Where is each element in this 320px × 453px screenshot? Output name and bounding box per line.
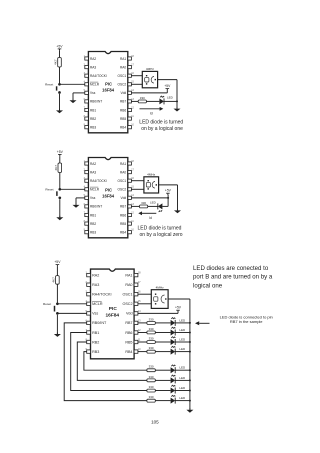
wire resistor to LED (RB3) (155, 369, 170, 371)
LED D6 on RB4 (171, 346, 176, 355)
svg-text:OSC1: OSC1 (118, 179, 127, 183)
svg-text:12: 12 (131, 106, 134, 109)
wire node to MCLR pin (figure 3) (57, 303, 86, 305)
wire LED cathode to rail (RB0) (175, 400, 190, 402)
wire resistor to LED (RB2) (155, 379, 170, 381)
ground at Vss (figure 2) (73, 203, 80, 207)
svg-text:RA2: RA2 (90, 57, 96, 61)
wire button to ground (figure 3) (56, 315, 58, 334)
svg-text:+5V: +5V (56, 44, 63, 48)
svg-text:17: 17 (131, 64, 134, 67)
svg-text:4K7: 4K7 (54, 165, 58, 171)
LED D2 (on = logic zero) (158, 203, 163, 212)
svg-text:RB2: RB2 (90, 222, 96, 226)
node rail junction (RB0) (189, 400, 191, 402)
U2 pin 6 RB0/INT (84, 203, 103, 209)
svg-text:17: 17 (138, 280, 141, 284)
node MCLR junction (59, 83, 61, 85)
svg-text:LED: LED (179, 376, 186, 380)
svg-text:15: 15 (131, 186, 134, 189)
U1 pin 3 RA4/TOCKI (84, 72, 107, 78)
U1 pin 16 OSC1 (118, 72, 135, 78)
svg-text:RB3: RB3 (92, 350, 99, 354)
U2 pin 12 RB6 (120, 211, 135, 217)
U1 pin 5 Vss (84, 89, 96, 95)
svg-text:Vdd: Vdd (126, 312, 133, 316)
svg-text:LED diode is turned: LED diode is turned (139, 119, 183, 125)
resistor R10 330 (RB3) (147, 365, 155, 372)
svg-text:LED: LED (179, 318, 186, 322)
LED D8 on RB2 (171, 375, 176, 384)
U1 pin 4 MCLR (84, 81, 100, 87)
svg-text:4MHz: 4MHz (146, 67, 155, 71)
U3 pin 15 OSC2 (122, 299, 141, 306)
svg-text:4K7: 4K7 (52, 277, 56, 283)
svg-text:+5V: +5V (57, 150, 64, 154)
wire OSC1 to oscillator (figure 3) (138, 293, 151, 295)
ground at cathode rail (figure 3) (186, 408, 193, 412)
resistor R7 330 (RB6) (147, 327, 155, 334)
U1 pin 12 RB6 (120, 106, 135, 112)
wire R2 to LED (146, 100, 159, 102)
svg-text:RB1: RB1 (90, 213, 96, 217)
resistor R13 330 (RB0) (147, 395, 155, 402)
svg-text:13: 13 (138, 318, 141, 322)
IC U2 PIC16F84 body (88, 158, 127, 238)
pushbutton Reset (figure 2) (45, 188, 61, 200)
svg-text:Id: Id (150, 111, 153, 115)
svg-text:Reset: Reset (45, 188, 53, 192)
wire R1 to MCLR node (59, 67, 61, 84)
svg-text:PIC: PIC (109, 306, 118, 312)
annotation arrow to RB7 LED (195, 321, 210, 325)
svg-text:14: 14 (131, 194, 134, 197)
IC U1 label PIC 16F84 (102, 81, 115, 92)
U1 pin 15 OSC2 (118, 81, 135, 87)
wire LED cathode to rail (RB2) (175, 379, 190, 381)
wire LED cathode to rail (RB7) (175, 322, 190, 324)
svg-text:RB6: RB6 (120, 213, 126, 217)
svg-text:RA4/TOCKI: RA4/TOCKI (92, 293, 111, 297)
wire +5V tick (177, 312, 179, 313)
svg-text:RB4: RB4 (120, 231, 126, 235)
U2 pin 15 OSC2 (118, 186, 135, 192)
U1 pin 17 RA0 (120, 64, 135, 70)
svg-text:330: 330 (149, 336, 154, 340)
IC U2 label PIC 16F84 (102, 187, 115, 198)
svg-text:330: 330 (149, 365, 154, 369)
wire RB7 to resistor (138, 322, 147, 324)
wire R5 to MCLR node (56, 284, 58, 304)
svg-text:LED: LED (179, 347, 186, 351)
svg-text:Vdd: Vdd (121, 91, 127, 95)
wire RB5 to resistor (138, 341, 147, 343)
wire Vss down (72, 93, 74, 100)
svg-text:RA4/TOCKI: RA4/TOCKI (90, 74, 107, 78)
svg-text:LED: LED (179, 386, 186, 390)
svg-text:RB2: RB2 (90, 117, 96, 121)
svg-text:330: 330 (149, 385, 154, 389)
svg-text:Vdd: Vdd (121, 196, 127, 200)
ground at LED cathode (174, 107, 181, 111)
U2 pin 18 RA1 (120, 160, 135, 166)
wire resistor to LED (RB0) (155, 400, 170, 402)
caption figure 2 (138, 225, 183, 238)
wire OSC2 to oscillator (131, 83, 142, 85)
wire Vdd pin to +5V (138, 312, 178, 314)
wire Vss pin left (figure 2) (76, 197, 85, 199)
svg-text:logical one: logical one (193, 282, 223, 289)
ground below Reset button (figure 2) (56, 216, 63, 220)
svg-text:RA1: RA1 (120, 57, 126, 61)
wire node to MCLR pin (60, 83, 85, 85)
wire +5V to R1 (59, 51, 61, 58)
svg-text:OSC1: OSC1 (118, 74, 127, 78)
U1 pin 7 RB1 (84, 106, 97, 112)
resistor R12 330 (RB1) (147, 385, 155, 392)
wire rail down (figure 2) (177, 185, 179, 211)
svg-text:4MHz: 4MHz (156, 286, 165, 290)
wire RB0 routed below IC (64, 323, 147, 401)
svg-text:4K7: 4K7 (54, 59, 58, 65)
wire oscillator to cathode rail (168, 298, 190, 300)
LED D1 (on = logic one) (159, 96, 164, 105)
resistor R6 330 (RB7) (147, 317, 155, 324)
svg-text:17: 17 (131, 169, 134, 172)
oscillator X2 4MHz (144, 173, 159, 193)
node rail junction (RB4) (189, 351, 191, 353)
pushbutton Reset (45, 83, 61, 94)
wire RB2 routed below IC (77, 342, 147, 380)
svg-text:105: 105 (151, 420, 159, 425)
wire LED cathode to rail (RB6) (175, 332, 190, 334)
svg-text:16F84: 16F84 (102, 194, 115, 199)
svg-text:RB5: RB5 (125, 340, 132, 344)
U3 pin 13 RB7 (125, 318, 141, 325)
resistor R8 330 (RB5) (147, 336, 155, 343)
wire Vss down (75, 198, 77, 205)
wire button to ground (59, 94, 61, 111)
U2 pin 10 RB4 (120, 229, 135, 235)
svg-text:RB0/INT: RB0/INT (90, 100, 102, 104)
LED D3 on RB7 (171, 317, 176, 326)
wire OSC2 to oscillator (figure 2) (131, 188, 144, 190)
U2 pin 14 Vdd (121, 194, 135, 200)
U1 pin 9 RB3 (84, 124, 97, 130)
current direction arrow Id (140, 107, 164, 115)
svg-text:OSC1: OSC1 (122, 293, 132, 297)
LED D7 on RB3 (171, 365, 176, 374)
wire LED cathode to rail (RB5) (175, 341, 190, 343)
wire R4 to LED cathode (148, 205, 158, 207)
ground at Vss (70, 99, 77, 103)
node Vdd/+5V junction (167, 197, 169, 199)
U3 pin 16 OSC1 (122, 290, 141, 297)
wire RB4 to resistor (138, 351, 147, 353)
U2 pin 16 OSC1 (118, 177, 135, 183)
U1 pin 11 RB5 (120, 115, 134, 121)
resistor R11 330 (RB2) (147, 375, 155, 382)
svg-text:+5V: +5V (175, 306, 182, 310)
wire node to MCLR pin (60, 188, 85, 190)
U3 pin 1 RA2 (85, 271, 99, 278)
wire resistor to LED (RB6) (155, 332, 170, 334)
U3 pin 4 MCLR (85, 299, 102, 306)
U2 pin 13 RB7 (120, 203, 135, 209)
svg-text:RB5: RB5 (120, 117, 126, 121)
node MCLR junction (figure 3) (56, 303, 58, 305)
svg-text:RA4/TOCKI: RA4/TOCKI (90, 179, 107, 183)
svg-text:RB5: RB5 (120, 222, 126, 226)
node rail junction (RB3) (189, 369, 191, 371)
U2 pin 3 RA4/TOCKI (84, 177, 107, 183)
svg-text:13: 13 (131, 98, 134, 101)
svg-text:LED: LED (179, 396, 186, 400)
svg-text:330: 330 (149, 375, 154, 379)
wire RB1 routed below IC (71, 333, 147, 391)
svg-text:RA1: RA1 (120, 162, 126, 166)
svg-text:LED diodes are conected to: LED diodes are conected to (193, 265, 269, 272)
svg-text:11: 11 (131, 220, 134, 223)
resistor R3 4K7 pull-up (54, 163, 62, 173)
svg-text:on by a logical zero: on by a logical zero (140, 232, 183, 238)
svg-text:RA1: RA1 (125, 273, 132, 277)
U2 pin 5 Vss (84, 194, 96, 200)
U3 pin 8 RB2 (85, 337, 99, 344)
svg-text:18: 18 (131, 160, 134, 163)
oscillator X1 4MHz (142, 67, 157, 88)
svg-text:+5V: +5V (164, 84, 171, 88)
svg-text:RB2: RB2 (92, 340, 99, 344)
IC U3 PIC16F84 body (91, 269, 135, 359)
node LED/rail junction (176, 100, 178, 102)
U3 pin 18 RA1 (125, 271, 141, 278)
U2 pin 17 RA0 (120, 169, 135, 175)
+5V supply at Vdd (figure 1) (164, 84, 171, 90)
svg-text:Reset: Reset (43, 302, 51, 306)
resistor R9 330 (RB4) (147, 346, 155, 353)
resistor R1 4K7 pull-up (54, 58, 62, 68)
wire LED cathode to rail (RB1) (175, 390, 190, 392)
U3 pin 9 RB3 (85, 347, 99, 354)
svg-text:18: 18 (138, 271, 141, 275)
U3 pin 6 RB0/INT (85, 318, 107, 325)
svg-text:+5V: +5V (165, 189, 172, 193)
svg-text:LED: LED (179, 337, 186, 341)
svg-text:330: 330 (149, 346, 154, 350)
caption figure 3 (193, 265, 273, 290)
svg-text:LED: LED (179, 366, 186, 370)
U2 pin 2 RA3 (84, 169, 97, 175)
wire oscillator to ground rail (158, 79, 177, 81)
wire RB7 to R2 (131, 100, 138, 102)
U1 pin 13 RB7 (120, 98, 135, 104)
wire LED cathode to rail (164, 100, 177, 102)
U1 pin 6 RB0/INT (84, 98, 103, 104)
wire rail to ground (176, 101, 178, 108)
current direction arrow Id (figure 2) (138, 211, 156, 219)
U3 pin 17 RA0 (125, 280, 141, 287)
IC U3 label PIC 16F84 (105, 306, 119, 318)
svg-text:12: 12 (138, 328, 141, 332)
node rail junction (RB6) (189, 332, 191, 334)
U1 pin 14 Vdd (121, 89, 135, 95)
wire rail down to LED node (176, 80, 178, 102)
svg-text:15: 15 (131, 81, 134, 84)
wire OSC1 to oscillator (figure 2) (131, 180, 144, 182)
node rail junction (RB5) (189, 341, 191, 343)
U1 pin 8 RB2 (84, 115, 97, 121)
wire RB6 to resistor (138, 332, 147, 334)
U2 pin 11 RB5 (120, 220, 134, 226)
svg-text:RA0: RA0 (120, 170, 126, 174)
svg-text:11: 11 (138, 337, 141, 341)
annotation text: LED diode connected to pin RB7 (220, 315, 273, 325)
+5V supply rail (figure 1) (56, 44, 63, 50)
svg-text:18: 18 (131, 55, 134, 58)
svg-text:15: 15 (138, 299, 141, 303)
U3 pin 5 Vss (85, 309, 98, 316)
svg-text:Vss: Vss (92, 312, 98, 316)
svg-text:RB7 in the sample: RB7 in the sample (230, 319, 263, 324)
wire RB7 to R4 (131, 205, 139, 207)
svg-text:RB3: RB3 (90, 126, 96, 130)
svg-text:OSC2: OSC2 (118, 188, 127, 192)
svg-text:PIC: PIC (105, 187, 112, 192)
+5V supply at Vdd (figure 2) (165, 189, 172, 195)
svg-text:16: 16 (131, 72, 134, 75)
svg-text:RA3: RA3 (90, 65, 96, 69)
svg-text:13: 13 (131, 203, 134, 206)
svg-text:10: 10 (131, 229, 134, 232)
svg-text:330: 330 (149, 317, 154, 321)
svg-text:RB6: RB6 (120, 108, 126, 112)
svg-text:OSC2: OSC2 (122, 302, 132, 306)
svg-text:330: 330 (140, 96, 145, 100)
svg-text:10: 10 (131, 124, 134, 127)
wire resistor to LED (RB7) (155, 322, 170, 324)
wire +5V to R3 (59, 156, 61, 163)
svg-text:MCLR: MCLR (90, 83, 100, 87)
LED D10 on RB0 (171, 395, 176, 404)
svg-text:330: 330 (141, 201, 146, 205)
LED D5 on RB5 (171, 336, 176, 345)
U3 pin 10 RB4 (125, 347, 141, 354)
svg-text:RB3: RB3 (90, 231, 96, 235)
LED D9 on RB1 (171, 385, 176, 394)
wire LED cathode to rail (RB4) (175, 351, 190, 353)
wire resistor to LED (RB1) (155, 390, 170, 392)
ground below Reset button (figure 3) (54, 333, 61, 337)
wire LED cathode to rail (RB3) (175, 369, 190, 371)
svg-text:MCLR: MCLR (90, 188, 100, 192)
wire +5V down (166, 90, 168, 93)
U1 pin 10 RB4 (120, 124, 135, 130)
wire OSC2 to oscillator (figure 3) (138, 303, 151, 305)
wire +5V down to Vdd node (167, 195, 169, 198)
+5V supply at Vdd (figure 3) (175, 306, 182, 312)
wire OSC1 to oscillator (131, 75, 142, 77)
svg-text:Id: Id (149, 216, 152, 220)
resistor R2 330 (138, 96, 146, 103)
svg-text:RB1: RB1 (90, 108, 96, 112)
svg-text:16: 16 (131, 177, 134, 180)
svg-text:RA2: RA2 (92, 273, 99, 277)
wire RB3 routed below IC (84, 352, 147, 371)
IC U1 PIC16F84 body (88, 52, 127, 133)
wire to Vdd pin (131, 92, 167, 94)
svg-text:16F84: 16F84 (102, 88, 115, 93)
svg-text:Reset: Reset (45, 83, 53, 87)
wire to Vdd pin (figure 2) (131, 197, 168, 199)
U3 pin 3 RA4/TOCKI (85, 290, 111, 297)
U2 pin 4 MCLR (84, 186, 100, 192)
svg-text:RA2: RA2 (90, 162, 96, 166)
cathode rail down to ground (189, 299, 191, 410)
wire +5V to R5 (56, 266, 58, 275)
U3 pin 2 RA3 (85, 280, 99, 287)
svg-text:OSC2: OSC2 (118, 83, 127, 87)
svg-text:16: 16 (138, 290, 141, 294)
svg-text:RA0: RA0 (120, 65, 126, 69)
svg-text:MCLR: MCLR (92, 302, 103, 306)
+5V supply rail (figure 3) (54, 260, 61, 266)
U1 pin 2 RA3 (84, 64, 97, 70)
svg-text:RB0/INT: RB0/INT (92, 321, 107, 325)
svg-text:330: 330 (149, 395, 154, 399)
U2 pin 9 RB3 (84, 229, 97, 235)
svg-text:port B and are turned on by a: port B and are turned on by a (193, 274, 273, 281)
svg-text:on by a logical one: on by a logical one (141, 126, 183, 132)
U1 pin 1 RA2 (84, 55, 97, 61)
wire Vss pin left (73, 92, 85, 94)
wire +5V to LED anode (167, 198, 169, 207)
U2 pin 7 RB1 (84, 211, 97, 217)
U3 pin 11 RB5 (125, 337, 141, 344)
svg-text:16F84: 16F84 (105, 313, 119, 319)
svg-text:RB4: RB4 (120, 126, 126, 130)
svg-text:10: 10 (138, 347, 141, 351)
node rail junction (RB1) (189, 390, 191, 392)
wire button to Vss pin (57, 312, 86, 314)
resistor R4 330 (140, 201, 148, 208)
svg-text:14: 14 (138, 309, 141, 313)
+5V supply rail (figure 2) (57, 150, 64, 156)
wire oscillator to ground rail (figure 2) (159, 184, 178, 186)
svg-text:LED: LED (179, 328, 186, 332)
wire resistor to LED (RB4) (155, 351, 170, 353)
svg-text:14: 14 (131, 89, 134, 92)
svg-text:Vss: Vss (90, 196, 96, 200)
LED D4 on RB6 (171, 327, 176, 336)
svg-text:4MHz: 4MHz (147, 173, 156, 177)
resistor R5 4K7 pull-up (52, 276, 60, 285)
svg-text:12: 12 (131, 211, 134, 214)
node rail junction (RB7) (189, 322, 191, 324)
svg-text:LED diode is turned: LED diode is turned (138, 225, 182, 231)
node rail junction (RB2) (189, 379, 191, 381)
svg-text:LED: LED (150, 200, 157, 204)
ground below Reset button (56, 109, 63, 113)
wire button to ground (59, 199, 61, 217)
svg-text:PIC: PIC (105, 81, 112, 86)
wire LED anode to +5V branch (162, 205, 168, 207)
svg-text:RA3: RA3 (90, 170, 96, 174)
svg-text:RB6: RB6 (125, 331, 132, 335)
wire resistor to LED (RB5) (155, 341, 170, 343)
U1 pin 18 RA1 (120, 55, 135, 61)
svg-text:RA3: RA3 (92, 283, 99, 287)
